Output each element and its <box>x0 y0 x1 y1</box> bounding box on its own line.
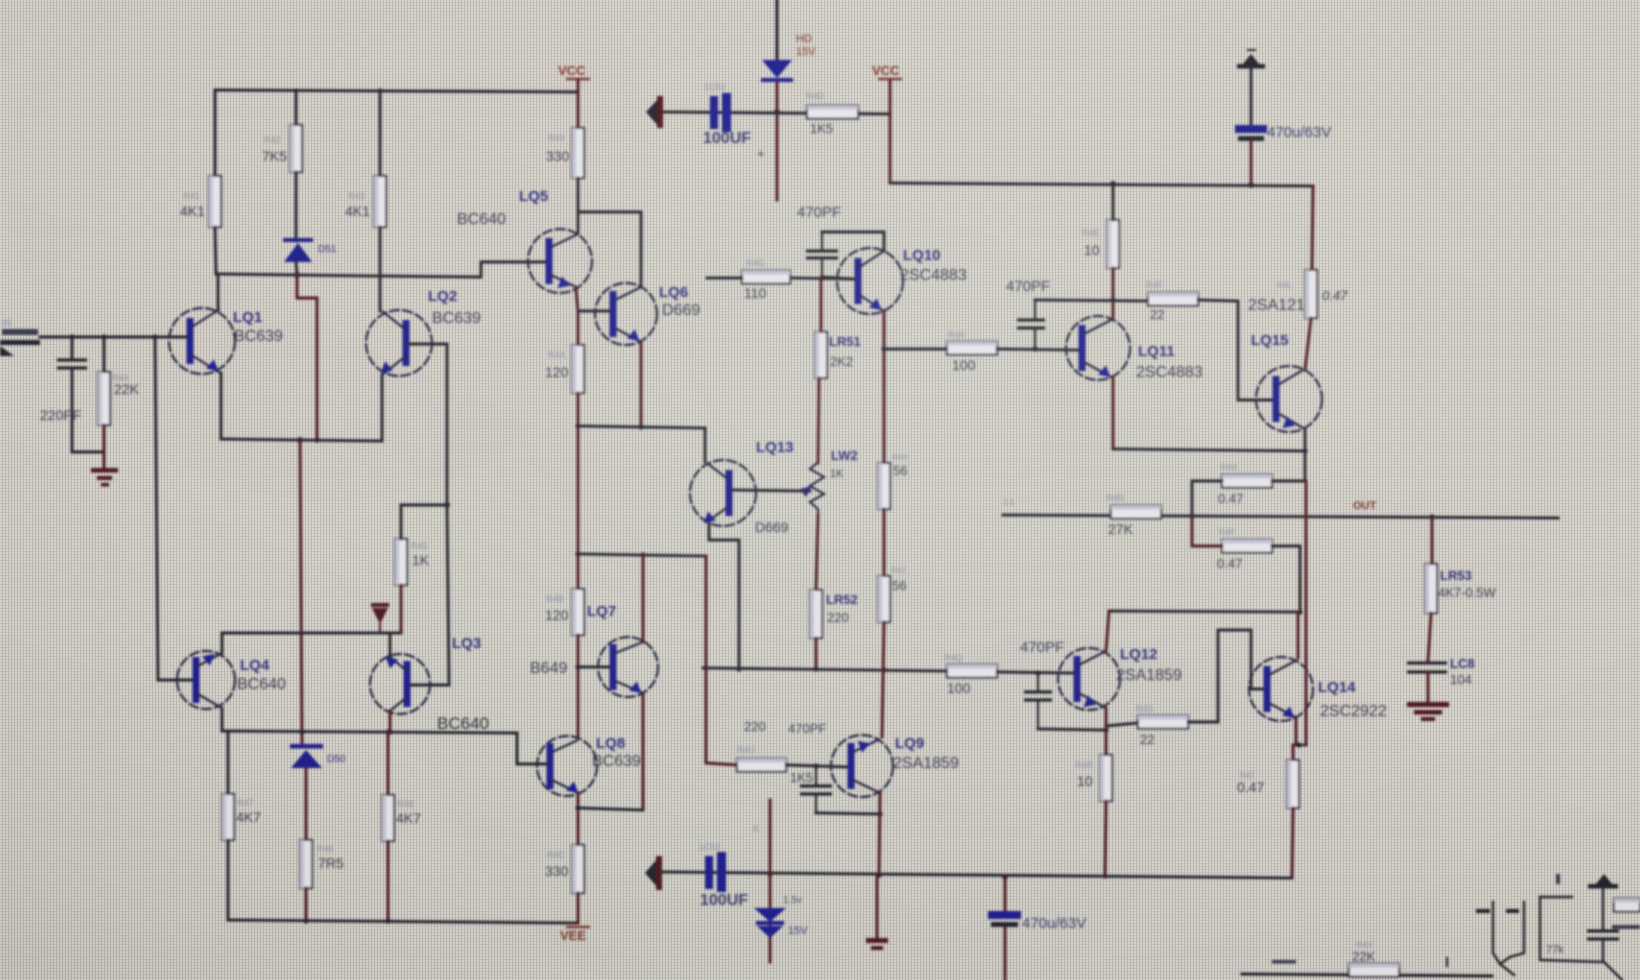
wire C56 to emitter <box>816 813 880 814</box>
resistor R4Q 100 (lower) <box>947 665 997 678</box>
wire LQ6 base stub <box>578 310 610 313</box>
wire bias jog from D51 node <box>297 276 317 439</box>
wire LQ2 collector <box>379 276 382 311</box>
wire LR53 to LC8 <box>1428 613 1431 661</box>
junction LQ7 base node <box>575 664 580 669</box>
wire LQ6 collector <box>640 212 643 287</box>
junction mid rail / D51 <box>294 272 300 278</box>
wire LQ5 emitter <box>576 288 578 345</box>
wire junction to C1 <box>71 337 74 358</box>
wire LQ1 base (input line) <box>40 336 187 339</box>
capacitor C53 470PF (to base) <box>1034 300 1036 318</box>
resistor R4H 56 (upper) <box>878 463 890 509</box>
junction input/R44 <box>101 334 106 339</box>
wire LQ7 emitter <box>642 693 645 808</box>
resistor R45 1K <box>395 539 407 585</box>
resistor R4W (edge) <box>1614 899 1640 912</box>
wire R4M to OUT rail <box>1192 481 1222 516</box>
junction bottom rail/R48 <box>385 918 390 923</box>
wire R4F to LQ15 base <box>1198 300 1272 400</box>
wire 4K7 left column <box>227 731 230 794</box>
wire center column to LQ8 <box>577 635 580 738</box>
resistor LR51 2K2 <box>815 332 827 378</box>
junction rail/C52 <box>1248 182 1254 188</box>
wire LC8 to ground <box>1427 672 1430 702</box>
wire LW2 to LR52 <box>816 515 818 590</box>
junction diode/rail <box>774 109 780 115</box>
wire 100 to LQ12 base <box>997 672 1074 673</box>
wire emitter to R4S <box>1106 723 1138 726</box>
wire D50 to R46 <box>305 768 308 840</box>
resistor R42 7K5 <box>290 125 302 172</box>
junction y669/56 column <box>881 667 886 672</box>
wire mid rail LQ1-LQ2 <box>216 274 380 276</box>
wire R41 to LQ1 collector node <box>215 227 216 274</box>
capacitor C58 <box>1587 929 1619 932</box>
wire C57 to edge <box>1004 927 1007 980</box>
wire drop to R42 <box>295 90 298 125</box>
label edge marks <box>1556 874 1560 884</box>
wire 56 column mid <box>883 509 886 576</box>
wire emitter node y729 <box>1038 729 1106 730</box>
transistor LQ8 BC639 <box>537 736 597 796</box>
diode HD 15V <box>762 60 792 78</box>
wire D51 to mid rail <box>296 262 297 275</box>
capacitor C54 470PF (feedback) <box>821 232 823 249</box>
potentiometer LW2 1K <box>810 463 824 515</box>
wire 100 to LQ11 base <box>997 349 1079 350</box>
wire bottom-left rail VEE <box>228 920 578 923</box>
wire LQ8 base stub <box>537 763 547 766</box>
resistor R4K 100 (upper) <box>947 342 997 355</box>
wire VCC right column <box>889 80 892 183</box>
wire LQ9 emitter <box>879 793 880 874</box>
wire 4K7 right column <box>387 731 390 795</box>
junction bottom rail/R46 <box>303 918 308 923</box>
resistor R4S 22 (lower) <box>1138 716 1188 729</box>
junction C55/base wire <box>1035 670 1040 675</box>
wire LQ3 emitter top <box>389 633 392 657</box>
junction y299 <box>1110 297 1115 302</box>
power arrow symbol P1 <box>1237 64 1265 69</box>
junction center/y553 <box>575 551 580 556</box>
ground input symbol G3 <box>645 858 658 888</box>
wire R4L to LQ15 collector <box>1305 318 1311 370</box>
transistor LQ11 2SC4883 <box>1066 316 1130 380</box>
resistor R46 7R5 <box>300 840 312 888</box>
wire junction to R44 <box>103 337 106 372</box>
wire zener column lower <box>769 874 772 962</box>
wire LQ15/LQ14 emitter column <box>1305 481 1308 745</box>
wire LQ13 emitter jog <box>709 522 739 669</box>
wire top filter rail y112 <box>662 112 890 114</box>
wire LQ5/LQ6 collector link <box>578 211 641 214</box>
junction bias jog <box>314 437 319 442</box>
wire diode down <box>776 82 779 200</box>
capacitor C56 470PF <box>815 766 817 784</box>
wire P2 down <box>1602 888 1604 929</box>
junction rail/R4E <box>1110 181 1116 187</box>
wire LQ7 collector <box>642 555 645 642</box>
wire y299 to R4F <box>1035 300 1148 301</box>
wire R4C to VEE <box>577 893 580 923</box>
wire bias column to LQ3 base <box>410 505 449 685</box>
junction rail/LQ9 <box>876 872 882 878</box>
resistor R4T 0.47 (vertical) <box>1287 760 1299 808</box>
wire P1 to C52 <box>1250 68 1253 126</box>
junction y669 left <box>703 665 708 670</box>
transistor LQ12 2SA1859 <box>1058 648 1120 710</box>
junction emitter column bottom <box>1296 742 1301 747</box>
wire 1K node rail <box>401 504 447 507</box>
wire LQ10 emitter <box>883 311 886 463</box>
resistor R4E 10 (upper) <box>1107 220 1119 268</box>
transistor LQ9 2SA1859 <box>831 735 893 797</box>
junction LQ10 emitter/100 <box>881 346 886 351</box>
power VEE mark right <box>866 938 888 943</box>
resistor R48 4K7 <box>382 795 394 841</box>
resistor R4A 120 (upper) <box>572 345 584 393</box>
wire R48 to bottom rail <box>387 841 390 920</box>
resistor R4V 22K <box>1349 964 1399 977</box>
wire y611 to LQ14 <box>1297 612 1300 658</box>
wire LQ11 emitter <box>1112 378 1115 449</box>
wire R46 to bottom rail <box>305 888 308 920</box>
resistor R47 4K7 <box>222 794 234 840</box>
wire LQ10 base <box>790 278 855 279</box>
resistor R4M 0.47 (out upper) <box>1222 475 1272 488</box>
resistor R4B 120 (lower) <box>572 589 584 635</box>
wire corner top link <box>1540 896 1572 898</box>
wire LQ13 base <box>732 490 810 491</box>
junction y611 <box>1297 609 1302 614</box>
transistor LQ10 2SC4883 <box>837 248 903 314</box>
wire bottom-right rail <box>1242 974 1492 976</box>
wire R43 to LQ2 collector node <box>379 227 382 275</box>
wire R45 bottom stub <box>400 585 403 633</box>
ground GND1 <box>91 468 118 473</box>
wire C58 down <box>1603 939 1622 980</box>
wire LQ2 emitter <box>381 375 384 440</box>
wire LQ10 cap loop top <box>822 231 884 234</box>
wire LQ3 collector bottom <box>389 711 392 731</box>
zener D51 <box>283 238 313 242</box>
junction emitter/C56 wire <box>877 811 882 816</box>
junction input column <box>152 334 157 339</box>
label corner marks <box>1272 960 1296 964</box>
wire LQ6 emitter <box>640 342 643 426</box>
wire emitter to R4R <box>1105 730 1108 755</box>
wire base node to LR51 <box>822 277 855 279</box>
wire emitter rail LQ1-LQ2 <box>221 439 382 441</box>
transistor LQ2 BC639 <box>366 310 432 376</box>
junction LQ15 emitter node <box>1302 448 1307 453</box>
wire mid bias rail y669 <box>703 668 947 671</box>
wire LQ10 collector <box>883 232 886 251</box>
wire rail corner to R4L <box>1312 186 1313 270</box>
ground GND2 <box>1407 702 1449 707</box>
junction y555/LQ7 collector <box>640 552 645 557</box>
resistor LR53 4K7-0.5W <box>1425 564 1437 613</box>
junction emitter/R10 column <box>1103 727 1108 732</box>
junction bias column mid <box>444 502 450 508</box>
wire drop to R41 <box>214 90 217 176</box>
wire top-right rail y183 <box>890 183 1313 186</box>
resistor R4D 1K5 <box>807 106 858 119</box>
junction OUT/0.47s <box>1189 513 1195 519</box>
resistor R4C 330 (lower) <box>572 845 584 893</box>
transistor LQ13 D669 (bias) <box>690 460 756 526</box>
wire mid rail to LQ5 base <box>380 262 546 277</box>
wire collector link y611 <box>1109 611 1300 612</box>
transistor LQ3 BC640 <box>370 654 430 714</box>
power arrow symbol P2 <box>1588 884 1618 889</box>
wire VCC to R49 <box>577 80 580 128</box>
diode D52 (bias) <box>371 603 389 607</box>
wire LQ7 base stub <box>578 666 610 669</box>
wire bias rail y633 <box>222 632 401 635</box>
junction corner rail <box>1446 958 1448 966</box>
wire OUT rail <box>1003 515 1558 518</box>
wire input to LQ4 base column <box>155 337 193 680</box>
wire LQ1 emitter <box>220 373 223 439</box>
wire OUT to LR53 <box>1431 517 1434 564</box>
junction rail/LQ3 <box>387 729 392 734</box>
junction emitter link <box>575 805 580 810</box>
wire C57 column <box>1004 877 1007 912</box>
wire drop to R43 <box>379 90 382 176</box>
wire LQ12 emitter <box>1105 708 1108 729</box>
wire LR52 bottom stub <box>815 638 818 669</box>
junction rail/D50 <box>299 729 304 734</box>
wire R4S to LQ14 base <box>1188 630 1264 722</box>
capacitor C55 470PF (lower) <box>1037 673 1039 690</box>
resistor R4R 10 (lower) <box>1100 755 1112 801</box>
diode D50 <box>290 744 323 749</box>
connector J1 (speaker) <box>1493 902 1524 964</box>
resistor LR52 220 <box>810 590 822 638</box>
junction cap C53/base wire <box>1032 346 1037 351</box>
wire R4M right link <box>1272 451 1305 481</box>
resistor R43 4K1 <box>374 176 386 227</box>
resistor R4U 1K5 (lower) <box>737 759 786 772</box>
transistor LQ7 B649 <box>598 637 658 697</box>
junction y669/LR52 <box>813 666 818 671</box>
wire y426 corner down to LQ13 <box>704 428 707 462</box>
junction center/y426 <box>575 423 580 428</box>
resistor R4P 0.47 (out lower) <box>1222 540 1272 553</box>
wire LQ8/LQ7 emitter link <box>578 808 643 810</box>
wire R47 to bottom rail <box>227 840 230 920</box>
wire LQ2 base to bias column <box>406 344 447 505</box>
wire OUT to R4P <box>1192 516 1222 546</box>
wire R42 to D51 <box>295 172 298 241</box>
resistor R41 4K1 <box>209 176 221 227</box>
junction base/LR51 <box>819 275 824 280</box>
capacitor C1 220PF <box>57 358 87 361</box>
wire C52 to rail <box>1250 141 1253 185</box>
wire R44 to ground <box>103 425 106 468</box>
wire LQ4 emitter bottom <box>221 708 224 731</box>
wire LQ4 collector top <box>221 633 224 653</box>
wire zener column upper <box>769 800 772 873</box>
wire 56 column to LQ9 <box>882 622 884 737</box>
wire R45 top stub <box>400 505 403 539</box>
resistor R4F 22 <box>1148 293 1198 306</box>
wire rail to R4E <box>1112 184 1115 220</box>
junction base wire/C56 <box>813 763 818 768</box>
wire center column upper <box>577 393 580 589</box>
ground input symbol G2 <box>646 98 659 127</box>
wire R49 to LQ5 collector node <box>577 178 580 233</box>
transistor LQ15 2SA1216 <box>1256 366 1322 432</box>
resistor R44 22K <box>98 372 110 425</box>
wire supply diode feed <box>775 0 778 62</box>
wire bottom filter rail <box>662 872 1292 878</box>
transistor LQ4 BC640 <box>177 651 235 709</box>
wire R4T to bottom rail <box>1292 808 1293 878</box>
capacitor C52 470u/63V <box>1235 125 1267 133</box>
wire y555 corner down <box>705 556 708 668</box>
transistor LQ1 BC639 <box>169 308 235 374</box>
junction OUT/LR53 <box>1429 514 1435 520</box>
capacitor C57 470u/63V <box>988 911 1021 919</box>
wire LQ10 emitter to R4K <box>884 348 947 351</box>
wire LQ9 ground stub <box>876 875 879 938</box>
wire bias column to R4U <box>706 668 737 765</box>
wire R4U to LQ9 base <box>786 765 848 767</box>
wire mid link y555 <box>578 554 706 556</box>
resistor R4L 0.47 (top) <box>1305 270 1317 318</box>
wire D50 column upper <box>300 440 302 745</box>
junction y426/LQ6 <box>638 424 643 429</box>
resistor R4N 27K <box>1111 506 1161 519</box>
wire emitter to LQ15 <box>1113 430 1305 451</box>
wire R4G left stub <box>707 277 742 280</box>
capacitor 1C52 100UF <box>705 856 713 889</box>
wire R4R to bottom rail <box>1105 801 1106 877</box>
input connector X1 <box>2 329 38 335</box>
junction rail/C57 <box>1002 874 1008 880</box>
wire LQ1 collector <box>217 274 220 309</box>
resistor R49 330 <box>572 128 584 178</box>
wire top VCC rail <box>215 90 578 92</box>
zener HD2 15V <box>754 908 786 922</box>
wire LQ12 collector <box>1106 611 1109 651</box>
resistor R4J 56 (lower) <box>878 576 890 622</box>
junction y669/LQ13 emitter <box>736 666 741 671</box>
capacitor 1C51 100UF <box>710 96 718 129</box>
wire R4E to LQ11 collector <box>1112 268 1115 318</box>
wire emitter node y426 <box>578 426 705 428</box>
wire LQ14 emitter <box>1295 718 1298 745</box>
junction rail/zener <box>767 871 772 876</box>
resistor R4G 110 <box>742 271 790 284</box>
wire R4P to LQ14 collector <box>1272 546 1300 611</box>
wire LR51 top stub <box>820 278 823 332</box>
transistor LQ5 BC640 <box>528 229 592 293</box>
wire C1 to ground node <box>72 368 104 452</box>
wire LQ8 emitter node <box>577 793 580 845</box>
wire LR51 to LW2 <box>818 378 819 463</box>
capacitor LC8 104 <box>1407 661 1447 664</box>
wire node to R4T <box>1292 745 1295 760</box>
junction input/C1 <box>69 334 74 339</box>
transistor LQ14 2SC2922 <box>1249 657 1313 721</box>
transistor LQ6 D669 <box>595 283 657 345</box>
junction emitter rail / D50 column <box>297 437 303 443</box>
wire rail BC640 y731 <box>222 731 547 764</box>
